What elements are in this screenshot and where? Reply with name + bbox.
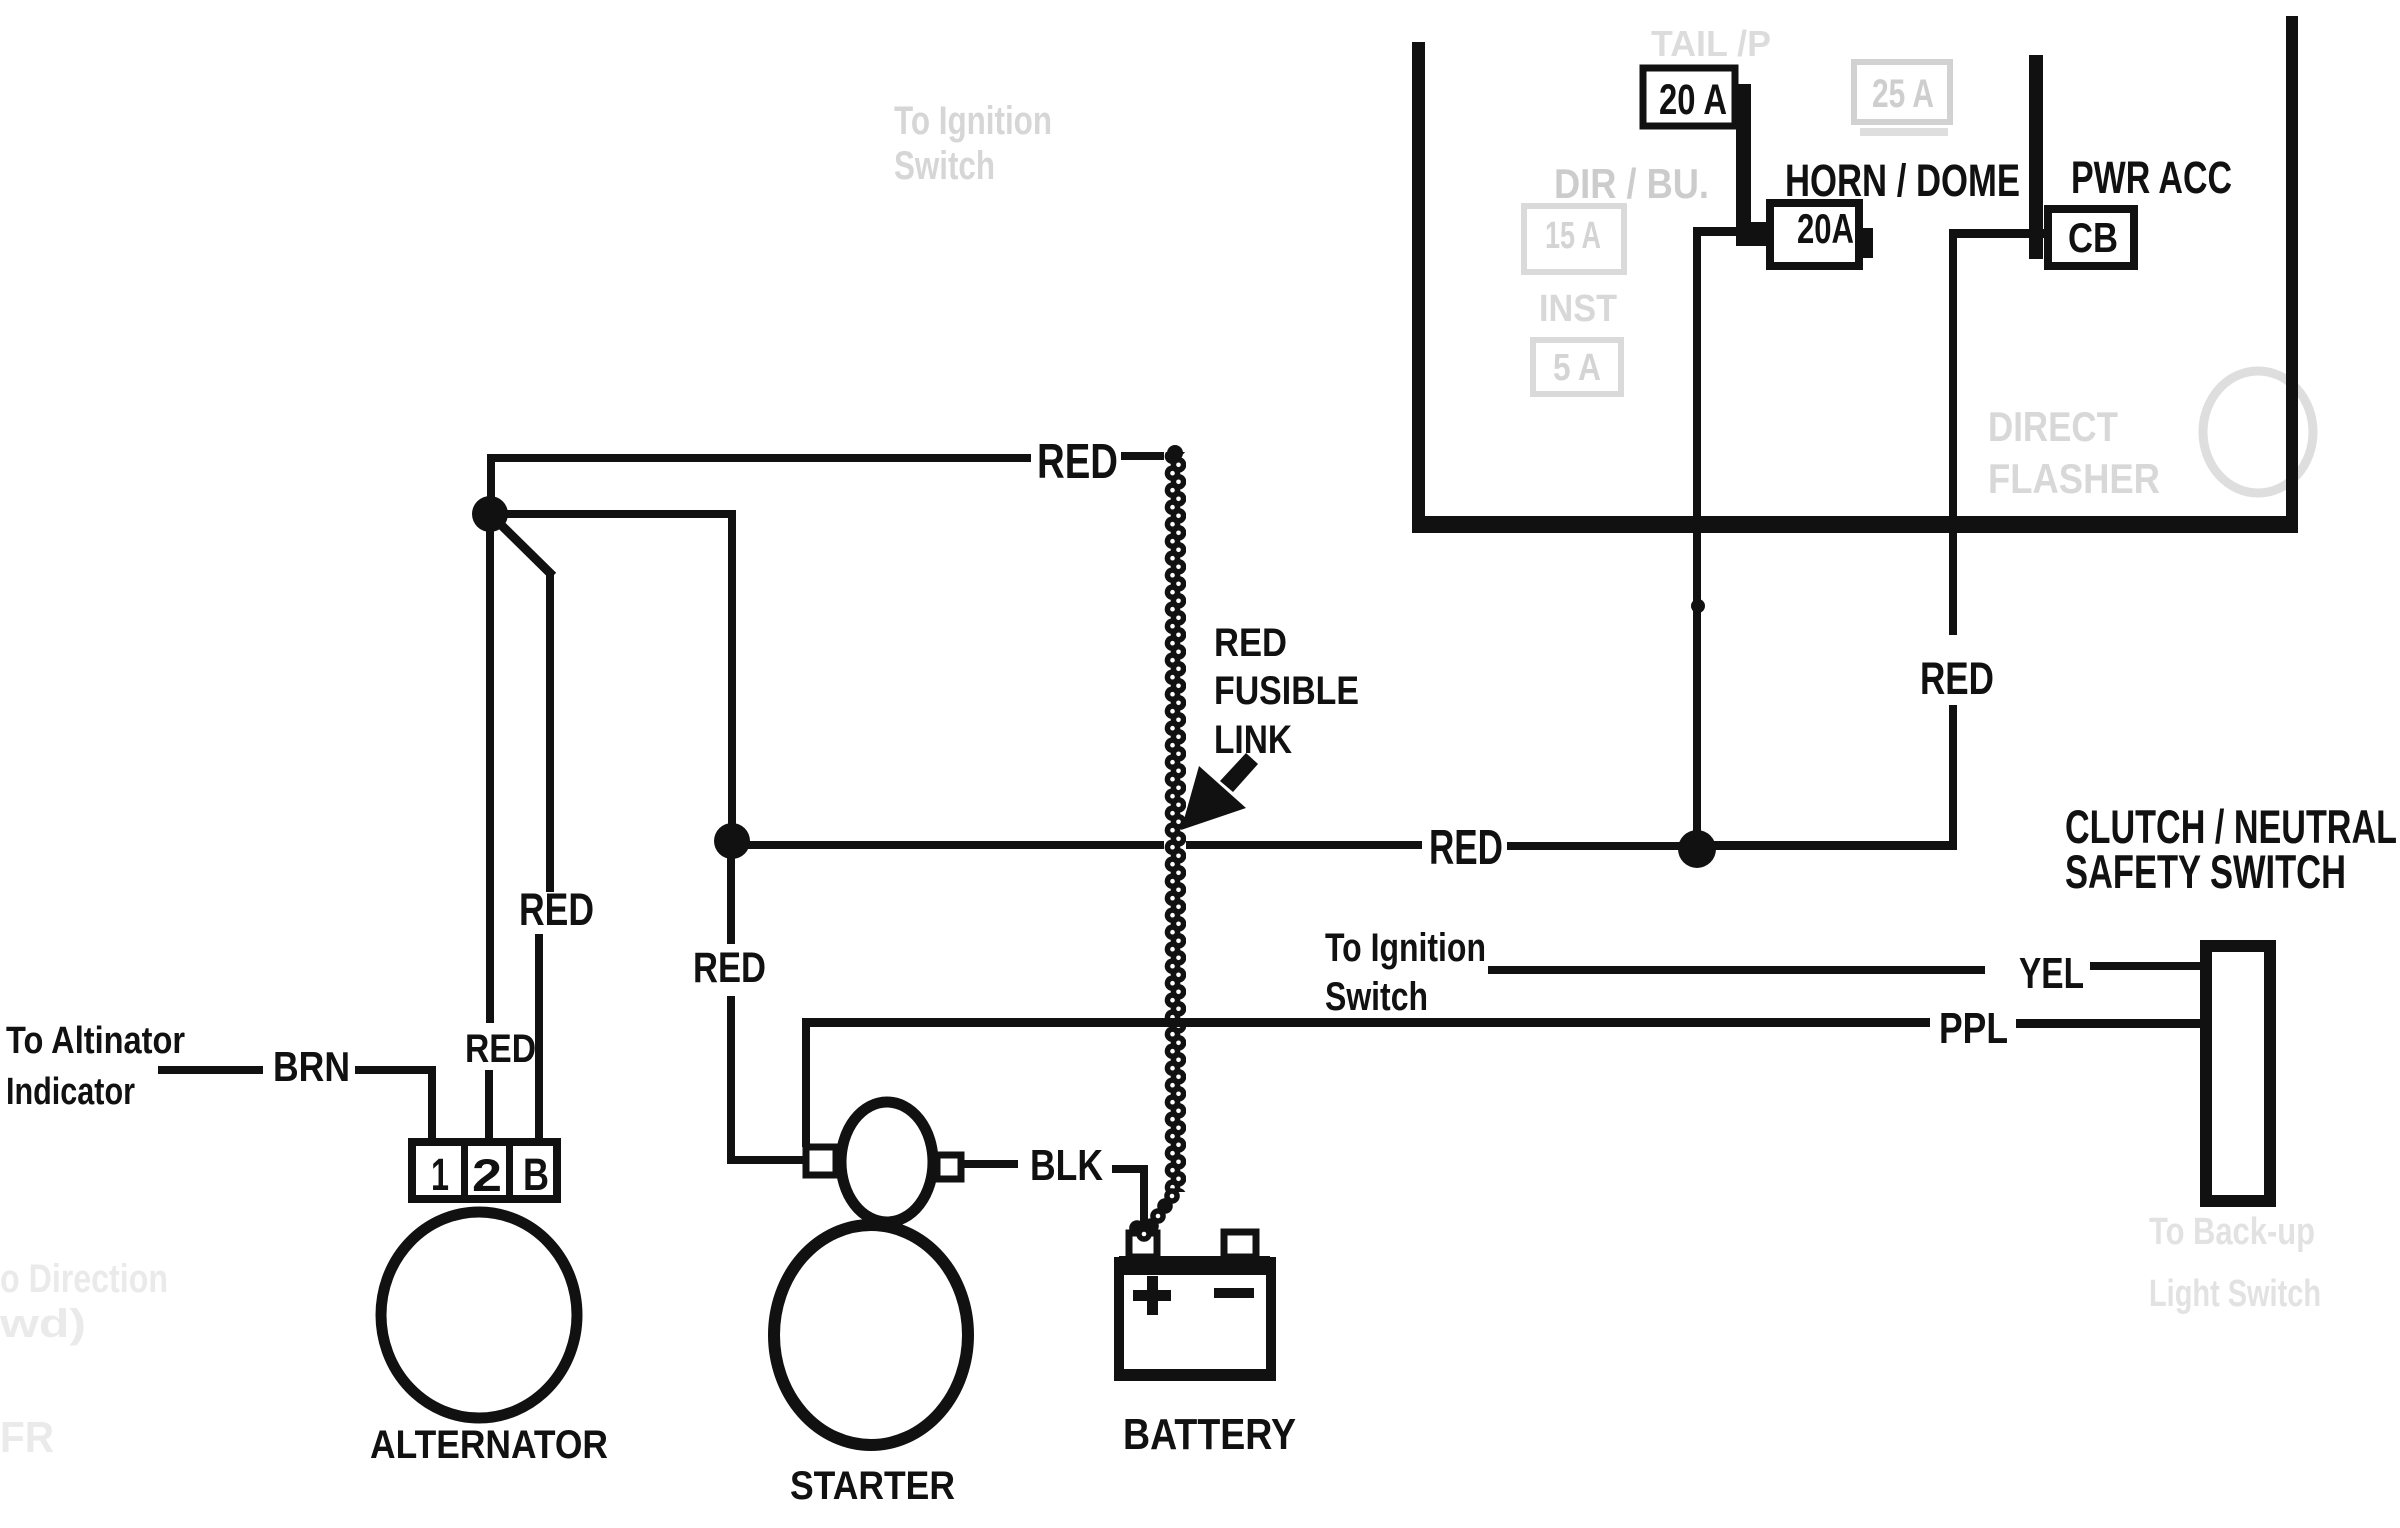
svg-text:25 A: 25 A <box>1872 72 1934 116</box>
wire to pin B upper vertical <box>546 572 554 892</box>
wire YEL left segment <box>1488 966 1985 974</box>
wire PPL riser to solenoid <box>802 1022 810 1147</box>
svg-text:FR: FR <box>0 1413 54 1462</box>
svg-text:FUSIBLE: FUSIBLE <box>1214 669 1359 713</box>
svg-text:To Altinator: To Altinator <box>6 1020 185 1062</box>
label To Ignition Switch <box>1325 926 1486 1019</box>
svg-text:RED: RED <box>1037 435 1118 489</box>
fuse F1 20 A box <box>1643 68 1735 126</box>
battery negative post <box>1224 1232 1256 1257</box>
svg-text:DIR / BU.: DIR / BU. <box>1554 160 1709 207</box>
wire node A down (to pin 2) upper <box>486 514 494 1023</box>
starter battery terminal box <box>806 1147 836 1175</box>
starter motor terminal box <box>937 1155 961 1179</box>
fusible link chain (vertical run) <box>1164 452 1186 1192</box>
svg-text:STARTER: STARTER <box>790 1464 955 1508</box>
svg-text:PWR ACC: PWR ACC <box>2071 152 2232 203</box>
wire battery feed RED horizontal left segment <box>732 841 1422 849</box>
svg-text:wd): wd) <box>0 1302 86 1346</box>
svg-text:15 A: 15 A <box>1545 215 1601 257</box>
battery top bar <box>1119 1256 1270 1275</box>
wire PPL right segment <box>2016 1019 2205 1028</box>
svg-text:RED: RED <box>465 1027 536 1071</box>
svg-text:o Direction: o Direction <box>0 1257 168 1301</box>
battery right wall <box>1266 1257 1276 1381</box>
wire node B down to starter upper <box>727 841 735 944</box>
fusible link chain top cap <box>1167 445 1183 461</box>
fuse F2 right stub <box>1859 228 1873 258</box>
wire node A down (to pin 2) lower <box>485 1070 493 1142</box>
ghost label To Back-up Light Switch <box>2149 1211 2321 1315</box>
fusible link chain bend to battery post <box>1129 1188 1180 1242</box>
svg-text:20 A: 20 A <box>1659 76 1727 124</box>
battery minus symbol <box>1214 1288 1254 1298</box>
ghost fuse 25 A <box>1854 62 1950 136</box>
wire to pin B lower vertical <box>535 934 543 1142</box>
wire BLK right segment <box>1112 1165 1146 1173</box>
wire BRN left segment <box>158 1066 263 1074</box>
svg-text:TAIL /P: TAIL /P <box>1651 23 1771 64</box>
starter motor body circle <box>774 1225 968 1445</box>
svg-text:BRN: BRN <box>273 1043 350 1090</box>
wire node B down to starter lower <box>727 996 735 1164</box>
wire CB drop vertical upper <box>1949 229 1957 635</box>
fuse panel right edge <box>2286 16 2298 533</box>
battery body fill <box>1114 1257 1276 1381</box>
svg-text:BATTERY: BATTERY <box>1123 1410 1296 1459</box>
label RED FUSIBLE LINK <box>1214 621 1359 762</box>
junction node (horn/dome feed + battery feed) <box>1678 830 1716 868</box>
svg-text:RED: RED <box>1429 821 1503 875</box>
svg-text:20A: 20A <box>1797 205 1854 252</box>
ghost fuse 5 A <box>1533 340 1621 394</box>
junction node A (alternator output) <box>472 496 508 532</box>
svg-text:1: 1 <box>431 1149 449 1200</box>
wire corner down to node A <box>487 454 495 506</box>
svg-text:LINK: LINK <box>1214 718 1292 762</box>
svg-text:To Back-up: To Back-up <box>2149 1211 2315 1253</box>
wire from CB left <box>1952 229 2048 238</box>
svg-text:5 A: 5 A <box>1553 347 1601 389</box>
battery bottom wall <box>1114 1369 1276 1381</box>
starter solenoid <box>841 1102 933 1222</box>
junction node B (battery feed tee) <box>714 823 750 859</box>
wire HORN/DOME feed vertical <box>1693 230 1701 842</box>
wire BRN corner down to pin 1 <box>428 1066 436 1142</box>
svg-text:YEL: YEL <box>2019 949 2084 998</box>
svg-text:CB: CB <box>2068 214 2118 261</box>
svg-text:Switch: Switch <box>1325 975 1428 1019</box>
svg-text:RED: RED <box>1214 621 1287 665</box>
svg-text:SAFETY SWITCH: SAFETY SWITCH <box>2065 845 2346 898</box>
ghost label DIRECT FLASHER <box>1988 403 2160 502</box>
circuit breaker CB box <box>2048 209 2134 266</box>
fuse panel left edge <box>1412 42 1425 533</box>
clutch / neutral safety switch body <box>2206 946 2270 1201</box>
wire into starter battery terminal <box>727 1156 807 1164</box>
alternator body circle <box>381 1212 577 1418</box>
label To Altinator Indicator <box>6 1020 185 1113</box>
svg-text:DIRECT: DIRECT <box>1988 403 2118 450</box>
fuse panel bottom bus bar <box>1412 516 2298 533</box>
wire horizontal CB drop to junction <box>1697 841 1957 850</box>
svg-text:HORN / DOME: HORN / DOME <box>1785 155 2020 206</box>
battery left wall <box>1114 1257 1124 1381</box>
wire YEL right segment <box>2090 962 2205 970</box>
label CLUTCH / NEUTRAL SAFETY SWITCH <box>2065 800 2397 898</box>
wire BLK corner down to battery post <box>1140 1165 1148 1225</box>
fuse F1 feed bar (thick) <box>1736 84 1751 232</box>
svg-text:BLK: BLK <box>1030 1141 1103 1190</box>
svg-text:Light Switch: Light Switch <box>2149 1273 2321 1315</box>
alternator connector block pins 1 2 B <box>412 1142 557 1201</box>
wire from F1 bar elbow left <box>1693 227 1743 236</box>
wire node A diagonal (to pin B) <box>490 514 553 576</box>
svg-text:INST: INST <box>1539 288 1617 330</box>
ghost fuse 15 A <box>1524 206 1624 272</box>
ghost flasher circle <box>2203 371 2313 493</box>
svg-text:B: B <box>523 1149 549 1200</box>
svg-text:Switch: Switch <box>894 144 995 188</box>
svg-text:To Ignition: To Ignition <box>1325 926 1486 970</box>
svg-text:FLASHER: FLASHER <box>1988 455 2160 502</box>
svg-text:RED: RED <box>519 884 594 935</box>
fuse F2 20A HORN/DOME box <box>1770 203 1859 266</box>
svg-text:2: 2 <box>472 1150 502 1201</box>
wire BRN right segment <box>355 1066 435 1074</box>
wire BLK left segment <box>963 1160 1018 1168</box>
svg-text:To Ignition: To Ignition <box>894 99 1052 143</box>
wire node A to starter-branch horizontal <box>490 510 736 518</box>
svg-text:RED: RED <box>693 944 766 992</box>
ghost text To Ignition (faded print-through) <box>894 99 1052 188</box>
wire top RED horizontal left segment <box>490 454 1031 462</box>
joint F1 bar to F2 fuse <box>1736 222 1768 246</box>
svg-text:ALTERNATOR: ALTERNATOR <box>370 1423 608 1467</box>
wire corner down to node B <box>728 510 736 841</box>
svg-text:PPL: PPL <box>1939 1004 2008 1053</box>
battery plus symbol <box>1133 1276 1171 1315</box>
wire CB drop vertical lower <box>1949 705 1957 846</box>
ghost label e Direction <box>0 1257 168 1462</box>
small node artifact on horn feed <box>1691 599 1705 613</box>
svg-text:Indicator: Indicator <box>6 1071 135 1113</box>
battery positive post <box>1129 1233 1157 1257</box>
wire battery feed RED horizontal right segment <box>1507 842 1699 850</box>
CB feed bar (thick) <box>2029 55 2043 259</box>
wire top RED horizontal right segment <box>1121 452 1172 460</box>
svg-text:RED: RED <box>1920 653 1994 704</box>
fusible link pointer arrow <box>1220 753 1258 792</box>
wire PPL horizontal left segment <box>802 1018 1930 1027</box>
